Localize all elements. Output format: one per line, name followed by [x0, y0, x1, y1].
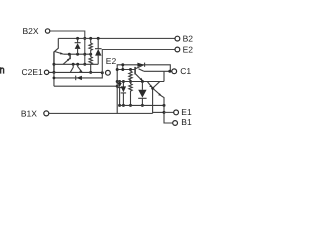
diode D1A — [117, 82, 121, 106]
node resistor R2b bottom — [89, 71, 92, 74]
node D1B top — [122, 80, 125, 83]
wire E2 lead — [102, 50, 175, 73]
node FWD2 branch left — [53, 77, 56, 80]
resistor R2a — [89, 38, 92, 54]
node riser branch junction — [116, 85, 119, 88]
transistor Q12 emitter — [147, 82, 152, 89]
node Q21 collector / E2 line — [52, 63, 55, 66]
wire Q12 emitter to E1 — [152, 88, 154, 113]
wire E1 line — [153, 111, 164, 113]
node diode D21 bottom — [76, 53, 79, 56]
node E2 vertical / rail — [101, 71, 104, 74]
wire line A — [120, 104, 164, 106]
svg-text:E1: E1 — [181, 107, 192, 117]
wire B2 rail — [58, 37, 175, 39]
node E1/B1 riser — [163, 111, 166, 114]
node B1X/base line — [116, 68, 119, 71]
diode FWD2 — [76, 76, 82, 81]
node R1a/X1 line — [129, 80, 132, 83]
node diode D22 top — [97, 37, 100, 40]
wire E2 line — [54, 63, 98, 65]
svg-text:E2: E2 — [106, 56, 117, 66]
transistor Q22 base bar — [69, 54, 71, 59]
node Q11 emitter / X1 — [141, 80, 144, 83]
diode D1B — [121, 82, 126, 106]
svg-text:B2X: B2X — [23, 26, 39, 36]
node D12 bottom — [141, 104, 144, 107]
terminal B1X — [44, 111, 49, 116]
node diode D21 top — [76, 37, 79, 40]
diode D21 — [75, 38, 81, 54]
transistor Q11 emitter — [135, 74, 142, 81]
svg-text:B2: B2 — [183, 34, 194, 44]
wire X1 line — [117, 81, 164, 83]
transistor Q22 collector leg — [70, 64, 73, 72]
node D1B bottom — [122, 104, 125, 107]
node Q21 collector / C2E1 rail — [52, 71, 55, 74]
diode D12 freewheel — [138, 82, 146, 106]
terminal C1 — [172, 69, 177, 74]
wire BX stub — [122, 65, 124, 70]
transistor Q21 body bar — [53, 52, 55, 73]
transistor Q11 emitter to C1 line — [139, 69, 144, 72]
svg-text:E2: E2 — [183, 44, 194, 54]
wire B2X lead — [50, 31, 85, 64]
node line A right — [163, 104, 166, 107]
node Q22 left leg — [72, 63, 75, 66]
node junction B2X/E2 line — [83, 63, 86, 66]
wire B1 base line — [117, 69, 135, 71]
wire B1 riser — [164, 105, 173, 123]
transistor Q21 emitter — [54, 51, 63, 54]
node C1 — [168, 70, 171, 73]
node resistor R2a top — [89, 37, 92, 40]
resistor R2b — [89, 54, 92, 72]
resistor R1b — [129, 82, 132, 106]
transistor Q22 emitter leg — [78, 64, 82, 72]
terminal C2E1 — [44, 70, 48, 74]
svg-text:B1X: B1X — [21, 109, 37, 119]
transistor Q12 collector — [163, 71, 165, 81]
wire B1X lead — [49, 112, 153, 114]
node resistor R1a top — [129, 68, 132, 71]
node junction B2X/X2 line — [83, 53, 86, 56]
resistor R1a — [129, 70, 132, 82]
stray letter fragment left edge — [1, 67, 4, 73]
svg-text:C1: C1 — [180, 66, 191, 76]
node resistor R2a bottom — [89, 53, 92, 56]
svg-text:C2E1: C2E1 — [22, 67, 44, 77]
node Q22 base — [68, 53, 71, 56]
transistor Q22 emitter lead — [63, 58, 70, 64]
transistor Q12 collector diagonal — [153, 82, 160, 88]
wire E2 node to FWD2 branch — [54, 73, 102, 78]
svg-text:B1: B1 — [181, 117, 192, 127]
transistor Q21 base lead — [54, 38, 58, 52]
transistor Q11 collector — [135, 65, 143, 69]
terminal E2 — [175, 47, 180, 52]
diode D22 freewheel — [95, 38, 102, 64]
node resistor R1b bottom — [129, 104, 132, 107]
node Q12 apex — [151, 87, 154, 90]
node Q22 right leg — [76, 63, 79, 66]
node junction B2X/B2 rail — [83, 37, 86, 40]
wire B1X riser — [117, 65, 170, 114]
wire C2E1 to riser branch — [54, 85, 117, 87]
node B1X/X1 line — [116, 80, 119, 83]
node D1A bottom — [118, 104, 121, 107]
node stub bottom — [121, 68, 124, 71]
wire C2E1 drop — [53, 72, 55, 86]
terminal B1 — [173, 121, 178, 126]
wire C1 line — [144, 70, 172, 72]
wire C2E1 rail — [49, 71, 102, 73]
terminal E2 mid circle — [106, 70, 111, 75]
transistor Q13 emitter — [153, 89, 164, 106]
wire X2 line — [63, 53, 90, 55]
node stub top — [121, 63, 124, 66]
terminal E1 — [174, 110, 179, 115]
transistor Q11 base bar — [134, 67, 136, 75]
terminal B2 — [175, 36, 180, 41]
terminal B2X — [45, 29, 49, 33]
diode D11 anti-saturation — [137, 63, 144, 67]
node D1A top — [118, 80, 121, 83]
wire E1 lead — [164, 111, 174, 113]
